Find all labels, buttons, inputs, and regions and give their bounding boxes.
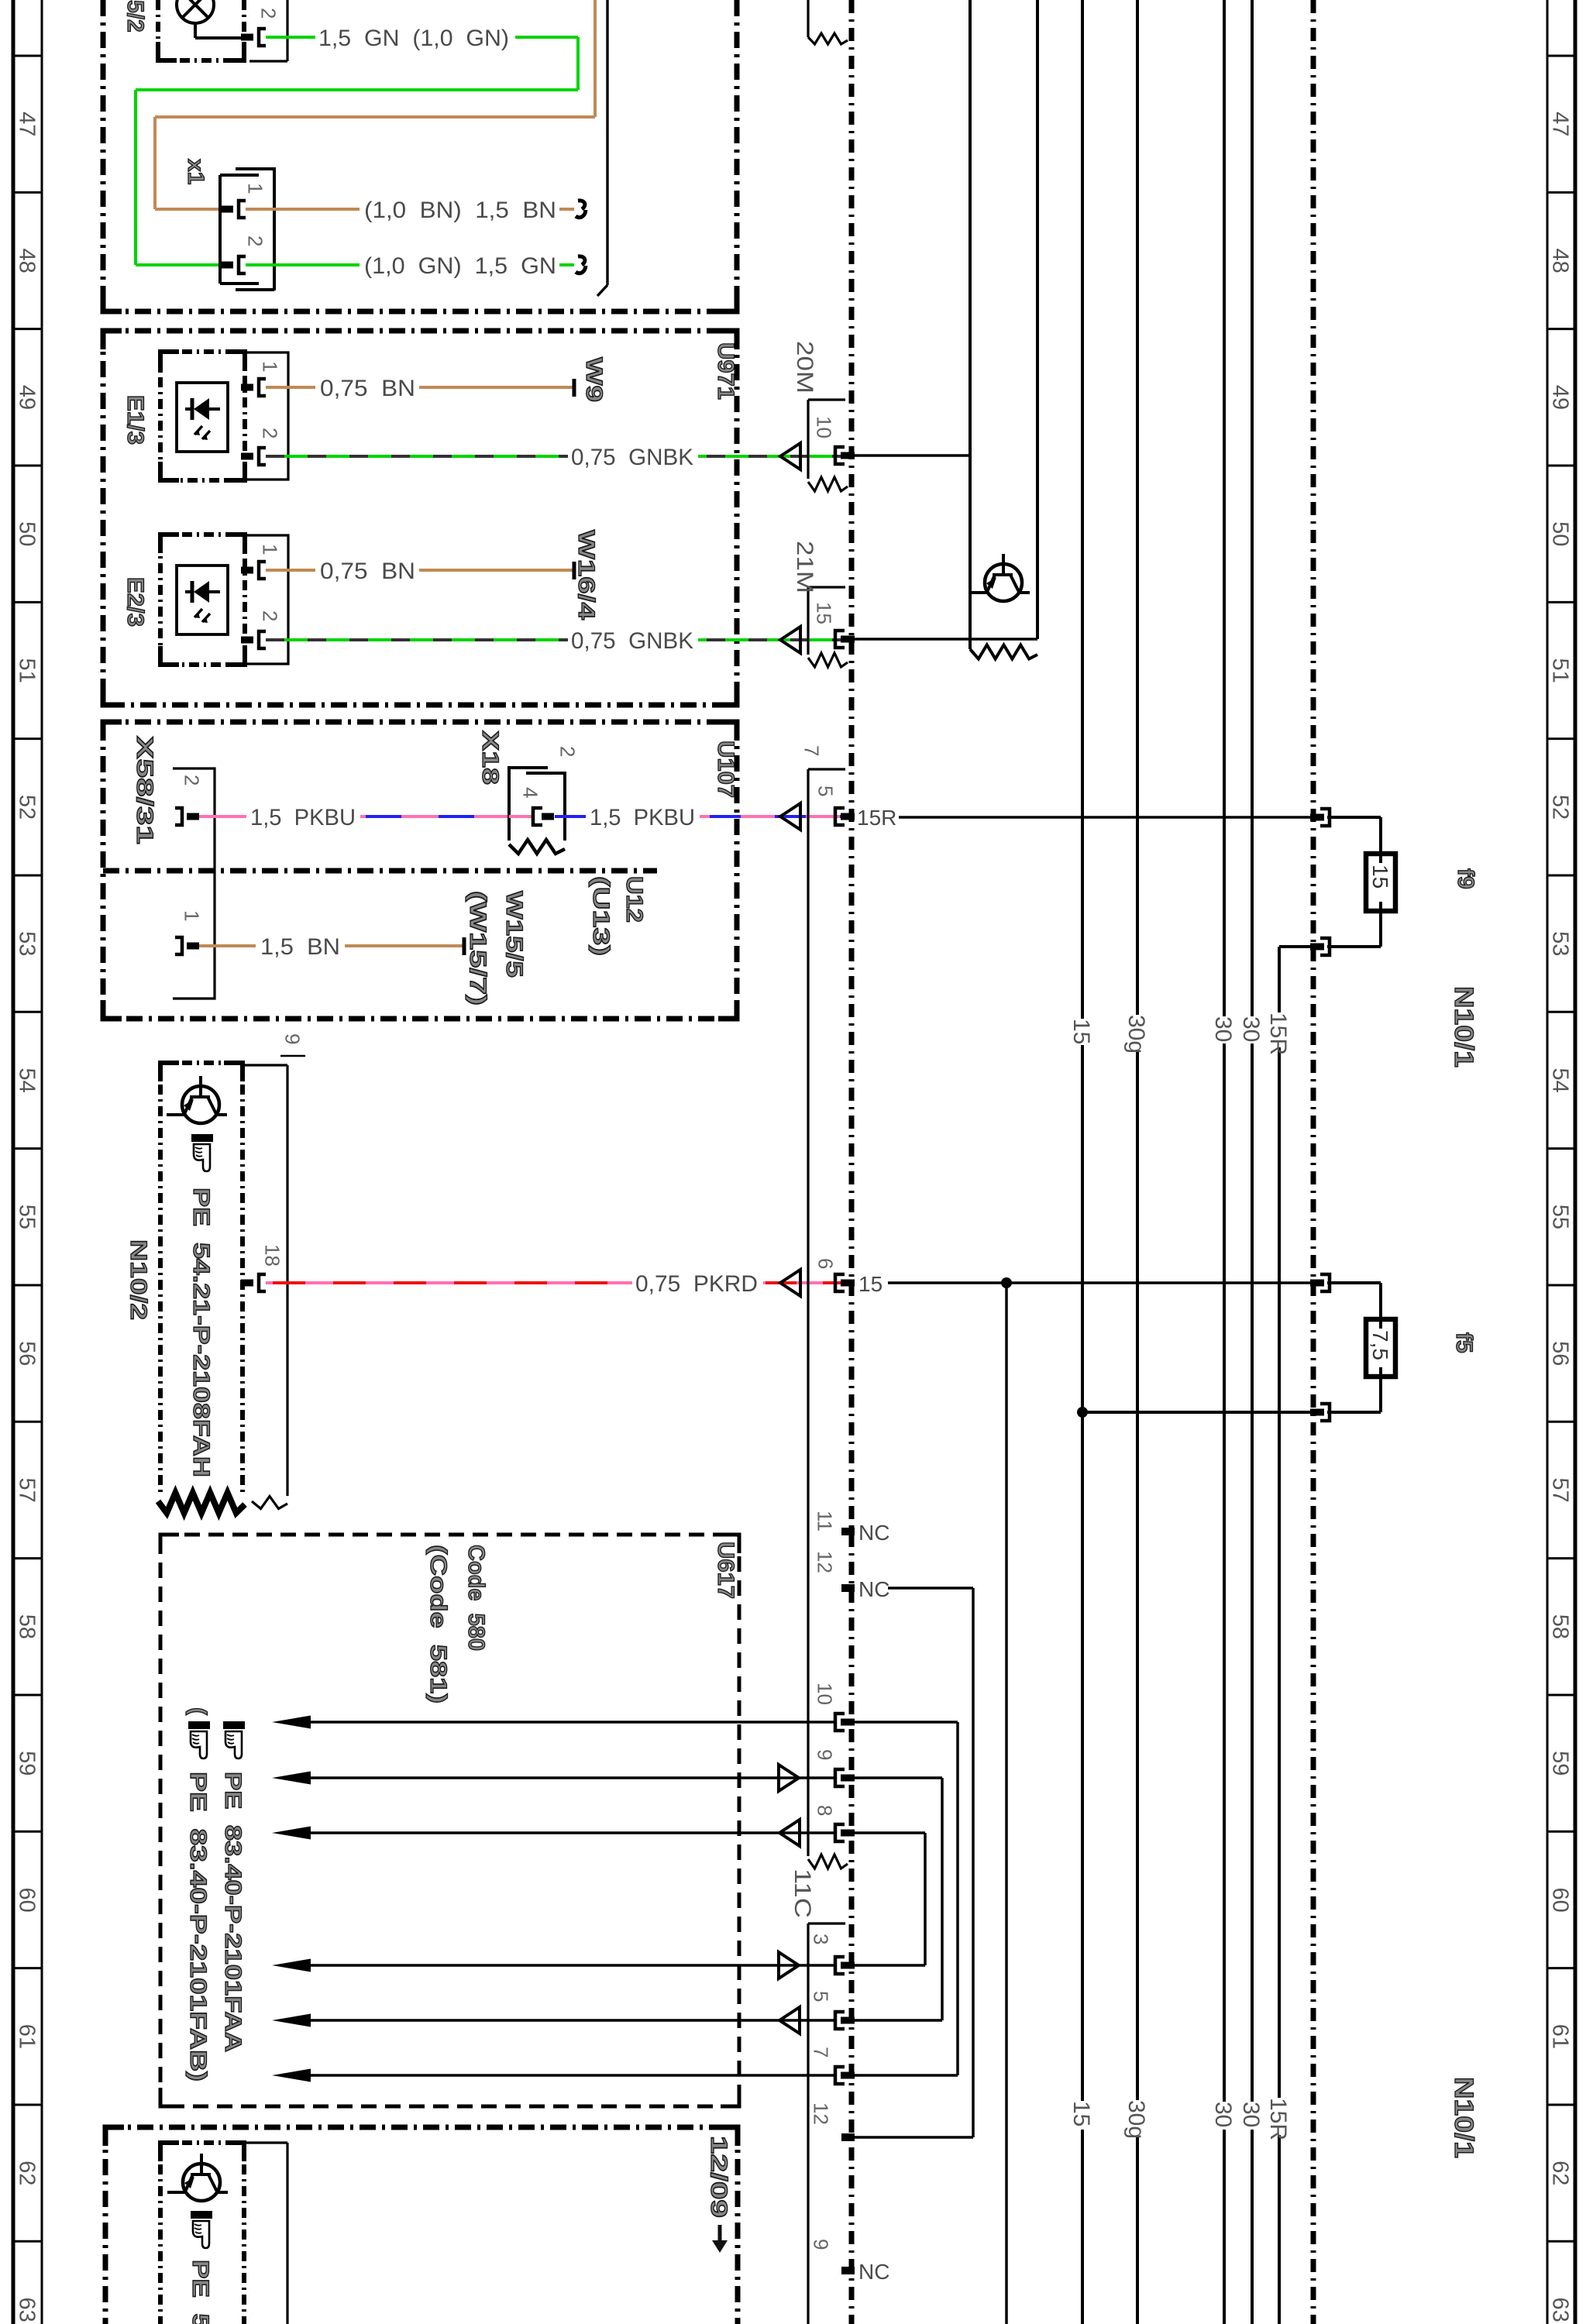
svg-text:15: 15: [1068, 2101, 1094, 2126]
svg-text:61: 61: [1548, 2024, 1573, 2049]
svg-text:7: 7: [800, 745, 824, 756]
connector X58/31 bracket: [173, 768, 215, 999]
hand symbol (N10/2): [191, 1134, 213, 1142]
svg-text:7,5: 7,5: [1368, 1330, 1392, 1360]
svg-text:X18: X18: [477, 731, 503, 785]
wire 0,75 BN (E2/3 -> W16/4): [266, 569, 315, 572]
svg-text:15R: 15R: [1265, 2098, 1291, 2140]
LED symbol E1/3: [185, 407, 192, 411]
terminal W9: [573, 379, 576, 397]
svg-text:W16/4: W16/4: [573, 530, 599, 620]
U617 wire row pin7: [272, 2069, 311, 2082]
page frame right: [1574, 0, 1578, 2324]
U617 wire row pin8: [272, 1827, 311, 1840]
svg-text:21M: 21M: [792, 541, 817, 593]
svg-text:52: 52: [15, 795, 40, 820]
svg-text:51: 51: [1548, 658, 1573, 682]
lamp unit E1/3: [160, 352, 245, 480]
svg-text:U617: U617: [713, 1542, 738, 1599]
svg-text:4: 4: [519, 787, 542, 798]
svg-text:2: 2: [259, 610, 282, 621]
svg-text:48: 48: [1548, 248, 1573, 273]
wire 1,5 PKBU (left): [199, 815, 246, 818]
svg-text:55: 55: [15, 1205, 40, 1229]
svg-text:2: 2: [259, 428, 282, 438]
svg-text:12/09: 12/09: [706, 2136, 731, 2218]
svg-text:PE 83.40-P-2101FAA: PE 83.40-P-2101FAA: [220, 1772, 246, 2052]
svg-text:6: 6: [814, 1258, 838, 1269]
E1/3 connector frame: [245, 352, 288, 480]
bus wire 15: [1081, 0, 1084, 1019]
U617 wire row pin3: [272, 1959, 311, 1972]
svg-text:1: 1: [244, 183, 267, 194]
svg-text:N10/1: N10/1: [1449, 2077, 1478, 2158]
svg-text:58: 58: [15, 1614, 40, 1639]
svg-text:(W15/7): (W15/7): [465, 891, 490, 1006]
svg-text:PE 83.40-P-2101FAB): PE 83.40-P-2101FAB): [185, 1772, 211, 2082]
svg-text:15R: 15R: [857, 806, 896, 830]
svg-text:(1,0 BN) 1,5 BN: (1,0 BN) 1,5 BN: [364, 198, 556, 223]
harness bracket: [606, 0, 608, 285]
svg-text:63: 63: [15, 2297, 40, 2322]
svg-text:2: 2: [257, 8, 280, 19]
socket 20M bracket: [808, 398, 845, 401]
svg-text:7: 7: [810, 2047, 833, 2058]
wire: [1379, 853, 1382, 863]
svg-text:5/2: 5/2: [122, 0, 148, 33]
svg-text:X58/31: X58/31: [132, 736, 157, 844]
svg-text:10: 10: [814, 1683, 837, 1705]
wire pin15 to channel: [855, 638, 1037, 641]
svg-text:1,5 PKBU: 1,5 PKBU: [250, 805, 356, 830]
svg-text:54: 54: [1548, 1067, 1573, 1092]
wire (1,0 BN) 1,5 BN: [246, 208, 360, 211]
svg-text:49: 49: [15, 385, 40, 410]
svg-text:56: 56: [1548, 1341, 1573, 1366]
wire (1,0 GN) 1,5 GN: [246, 263, 360, 266]
inline connector X18: [509, 768, 548, 841]
svg-text:15: 15: [1368, 865, 1392, 889]
wire 15R to fuse f9: [1320, 809, 1330, 826]
svg-text:15: 15: [813, 602, 836, 624]
svg-text:1,5 GN (1,0 GN): 1,5 GN (1,0 GN): [318, 26, 509, 51]
svg-text:49: 49: [1548, 385, 1573, 410]
wire 15 to fuse f5: [1320, 1274, 1330, 1291]
svg-text:50: 50: [15, 521, 40, 546]
U617 wire row pin9: [272, 1772, 311, 1785]
svg-text:U971: U971: [713, 342, 738, 400]
wire pin12 loop: [888, 1587, 973, 1590]
svg-text:(: (: [185, 1707, 211, 1715]
svg-text:56: 56: [15, 1341, 40, 1366]
bottom connector frame: [244, 2141, 287, 2144]
svg-text:N10/2: N10/2: [126, 1239, 151, 1320]
svg-text:12: 12: [810, 2102, 833, 2125]
lamp E5/2: [177, 0, 214, 23]
svg-text:PE 54.21-P-2108FAH: PE 54.21-P-2108FAH: [188, 1188, 214, 1477]
transistor symbol (bottom box): [183, 2164, 220, 2201]
svg-text:3: 3: [810, 1934, 833, 1944]
wire down from junction: [1005, 1283, 1008, 2324]
svg-text:30: 30: [1210, 1016, 1236, 1042]
group box U971: [103, 331, 737, 705]
connector x1: [273, 167, 276, 290]
svg-text:PE 5: PE 5: [188, 2260, 213, 2324]
svg-text:(1,0 GN) 1,5 GN: (1,0 GN) 1,5 GN: [364, 253, 556, 279]
bus wire 15R: [1278, 947, 1281, 1012]
svg-text:x1: x1: [183, 159, 208, 184]
group box 12/09 (cut bottom): [105, 2125, 738, 2130]
svg-text:2: 2: [181, 775, 204, 786]
terminal W16/4: [573, 562, 576, 579]
svg-text:60: 60: [1548, 1887, 1573, 1912]
svg-text:Code 580: Code 580: [463, 1545, 489, 1651]
fuse 15: [1366, 854, 1395, 911]
svg-text:1,5 PKBU: 1,5 PKBU: [590, 805, 695, 830]
wire pin10 to channel: [855, 454, 970, 457]
svg-text:NC: NC: [858, 1521, 889, 1545]
wire 0,75 BN (E1/3 -> W9): [266, 386, 315, 389]
svg-text:9: 9: [810, 2239, 833, 2250]
svg-text:30: 30: [1238, 2102, 1264, 2127]
N10/2 connector frame: [243, 1064, 287, 1066]
page frame left: [12, 0, 15, 2324]
svg-text:15R: 15R: [1265, 1012, 1291, 1055]
svg-text:61: 61: [15, 2024, 40, 2049]
svg-text:2: 2: [556, 746, 580, 757]
group box U617 (dashed): [160, 1535, 739, 2106]
svg-text:30: 30: [1238, 1016, 1264, 1042]
N10 boundary dash-dot line left: [849, 0, 855, 2324]
svg-text:50: 50: [1548, 521, 1573, 546]
control unit N10/2: [160, 1061, 243, 1065]
svg-text:47: 47: [15, 112, 40, 136]
svg-text:10: 10: [813, 416, 836, 438]
svg-text:53: 53: [15, 931, 40, 956]
E2/3 connector frame: [245, 535, 288, 664]
svg-text:0,75 GNBK: 0,75 GNBK: [571, 445, 693, 470]
wire 0,75 GNBK (E2/3): [266, 638, 568, 641]
svg-text:62: 62: [15, 2161, 40, 2185]
N10 boundary dash-dot line right: [1311, 0, 1316, 2324]
svg-text:1: 1: [259, 361, 282, 372]
svg-text:N10/1: N10/1: [1449, 986, 1478, 1067]
lamp connector frame: [286, 0, 288, 61]
svg-text:0,75 BN: 0,75 BN: [320, 376, 415, 401]
svg-text:62: 62: [1548, 2161, 1573, 2185]
svg-text:11C: 11C: [790, 1868, 815, 1918]
U617 wire row pin5: [272, 2014, 311, 2027]
fuse 7,5: [1366, 1319, 1395, 1377]
transistor Q (channel): [985, 564, 1022, 601]
socket 7 bracket: [808, 768, 845, 770]
svg-text:30g: 30g: [1123, 2100, 1149, 2139]
svg-text:53: 53: [1548, 931, 1573, 956]
svg-text:2: 2: [244, 235, 267, 246]
hand symbol (bottom box): [191, 2211, 212, 2219]
group box top (cut): [101, 0, 106, 311]
svg-text:f5: f5: [1451, 1332, 1477, 1353]
wire 1,5 GN from lamp: [266, 36, 315, 39]
svg-text:1: 1: [259, 544, 282, 555]
group box U107/U12: [103, 722, 737, 1019]
wire 0,75 GNBK (E1/3): [266, 455, 568, 458]
svg-text:0,75 PKRD: 0,75 PKRD: [635, 1271, 758, 1297]
box corner reinforcements: [103, 293, 122, 311]
U617 wire row pin10: [272, 1716, 311, 1729]
svg-text:15: 15: [858, 1272, 883, 1296]
svg-text:f9: f9: [1453, 868, 1478, 889]
control unit box (bottom, cut): [160, 2140, 244, 2145]
svg-text:18: 18: [261, 1244, 284, 1267]
internal channel lines: [969, 0, 972, 649]
svg-text:(U13): (U13): [588, 876, 614, 956]
svg-text:U107: U107: [713, 741, 738, 798]
svg-text:57: 57: [15, 1477, 40, 1502]
svg-text:59: 59: [1548, 1751, 1573, 1776]
svg-text:57: 57: [1548, 1477, 1573, 1502]
transistor symbol (N10/2): [182, 1086, 219, 1123]
svg-text:58: 58: [1548, 1614, 1573, 1639]
wire 1,5 BN from above (cut): [594, 0, 597, 117]
svg-text:9: 9: [814, 1749, 837, 1760]
svg-text:60: 60: [15, 1887, 40, 1912]
U107/U12 divider: [103, 868, 657, 874]
lamp box (cut top): [156, 0, 160, 60]
svg-text:U12: U12: [621, 876, 647, 923]
svg-text:E2/3: E2/3: [122, 577, 148, 627]
junction (15 feed): [1001, 1277, 1012, 1288]
hand symbols + PE 83.40 labels: [223, 1721, 245, 1729]
svg-text:47: 47: [1548, 112, 1573, 136]
svg-text:8: 8: [814, 1805, 837, 1816]
junction (15 bus): [1077, 1407, 1088, 1418]
bus wire 30 (left): [1223, 0, 1226, 1016]
socket 21M bracket: [808, 586, 845, 588]
top cut bracket: [807, 0, 809, 37]
svg-text:NC: NC: [858, 2260, 889, 2284]
svg-text:52: 52: [1548, 795, 1573, 820]
svg-text:NC: NC: [858, 1577, 889, 1601]
svg-text:15: 15: [1068, 1019, 1094, 1044]
svg-text:63: 63: [1548, 2297, 1573, 2322]
svg-text:1,5 BN: 1,5 BN: [260, 934, 340, 960]
bus wire 30g: [1136, 0, 1139, 1015]
wire 1,5 BN (X58/31 -> W15/5): [199, 944, 256, 947]
lamp unit E2/3: [160, 535, 245, 665]
svg-text:51: 51: [15, 658, 40, 682]
svg-text:W9: W9: [581, 357, 607, 402]
svg-text:(Code 581): (Code 581): [425, 1545, 451, 1703]
terminal W15/5: [463, 937, 466, 955]
wire fuse f5 out: [1320, 1404, 1330, 1421]
bus wire 30 (right): [1251, 0, 1254, 1016]
svg-text:30g: 30g: [1123, 1015, 1149, 1054]
wire 1,5 PKBU (right): [555, 815, 586, 818]
wire 0,75 PKRD: [266, 1281, 632, 1284]
svg-text:30: 30: [1210, 2102, 1236, 2127]
svg-text:5: 5: [814, 786, 838, 796]
svg-text:1: 1: [181, 910, 204, 921]
svg-text:0,75 BN: 0,75 BN: [320, 559, 415, 584]
svg-text:9: 9: [281, 1033, 304, 1044]
svg-text:0,75 GNBK: 0,75 GNBK: [571, 628, 693, 654]
svg-text:20M: 20M: [792, 341, 817, 394]
svg-text:12: 12: [814, 1551, 837, 1573]
LED symbol E2/3: [185, 590, 192, 593]
svg-text:W15/5: W15/5: [501, 891, 527, 978]
svg-text:59: 59: [15, 1751, 40, 1776]
wire fuse f9 out: [1320, 938, 1330, 955]
svg-text:11: 11: [814, 1511, 837, 1532]
svg-text:55: 55: [1548, 1205, 1573, 1229]
svg-text:E1/3: E1/3: [122, 395, 148, 445]
wire: [1379, 1318, 1382, 1329]
svg-text:5: 5: [810, 1991, 833, 2002]
svg-text:54: 54: [15, 1067, 40, 1092]
svg-text:48: 48: [15, 248, 40, 273]
